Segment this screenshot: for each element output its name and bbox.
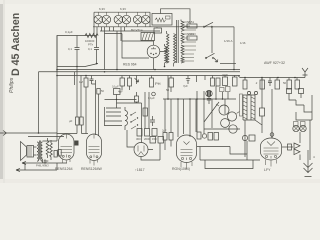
resistor fr box1 [282, 144, 293, 150]
wire switch out [213, 26, 234, 28]
wire between V1 V2 [57, 133, 88, 135]
wire drop e [116, 31, 118, 70]
svg-text:µF: µF [69, 119, 73, 123]
wire y99.4 [105, 99, 137, 100]
wire mains lead [0, 132, 57, 134]
lamp La1 [94, 12, 103, 27]
IF winding 2 [246, 95, 248, 120]
wire x149 [148, 92, 150, 129]
capacitor box B [112, 85, 120, 95]
antenna [302, 68, 308, 78]
IF core [240, 94, 256, 120]
grid cap circle [148, 92, 155, 100]
wire bus2 [39, 71, 241, 73]
svg-text:1/16: 1/16 [240, 41, 246, 45]
winding secondary [181, 45, 184, 55]
wire x95.5 [92, 80, 96, 135]
resistor spk box1 [54, 151, 57, 158]
transformer core [177, 20, 179, 63]
speaker driver [27, 146, 34, 158]
transformer taps [184, 22, 196, 61]
label 6,3V [99, 7, 126, 11]
resistor PTh [85, 34, 98, 38]
wire x77 lower [76, 67, 78, 118]
wire drop d [114, 27, 125, 31]
wire x196b [195, 99, 197, 132]
wire x212b [211, 99, 213, 128]
capacitor C1 [75, 36, 80, 53]
wire IF out [255, 120, 262, 133]
wire x272 [271, 89, 273, 138]
svg-text:0,1µF: 0,1µF [112, 85, 119, 89]
label V4 [172, 167, 190, 171]
wire fr4 [311, 95, 313, 120]
label PH [155, 81, 161, 86]
winding primary top [181, 20, 184, 32]
lamp La5 [133, 12, 142, 27]
svg-text:RES 964: RES 964 [123, 63, 137, 67]
label 4 [313, 155, 315, 159]
capacitor elec 122 [118, 76, 125, 94]
tube top cap dark [206, 90, 212, 96]
bottom boxes row [137, 129, 157, 137]
pickup box [152, 14, 172, 26]
resistor spk box2 [58, 150, 61, 157]
resistor box right of lamps [154, 28, 162, 33]
wire caps to bottom [77, 125, 82, 134]
resistor 171 [166, 76, 174, 93]
wire lamp feed left [94, 12, 97, 35]
wire lamp top bus [94, 11, 150, 13]
wire out h2 [230, 147, 247, 161]
svg-text:0,1µF: 0,1µF [65, 30, 73, 34]
label V5 [264, 168, 271, 172]
box C [135, 92, 139, 103]
capacitor 270 [268, 78, 272, 87]
svg-text:LFY: LFY [264, 168, 271, 172]
svg-text:PH: PH [155, 81, 161, 86]
wire V5 top feeds [247, 133, 274, 154]
wire x145 [144, 92, 146, 129]
capacitor block pair [69, 117, 83, 125]
resistor V151 [187, 20, 197, 28]
grid circles row [247, 91, 257, 94]
label PTh value [85, 39, 95, 47]
stub 196 [196, 76, 198, 83]
wire fr3 [304, 105, 312, 112]
IF winding 4 [254, 95, 256, 120]
svg-text:7µF: 7µF [183, 84, 188, 88]
wire eye cathode [153, 58, 155, 70]
dial scale hatch [141, 33, 155, 41]
wire out h4 [205, 160, 253, 169]
svg-text:PHIL WWJ: PHIL WWJ [36, 164, 49, 168]
resistor 245 [243, 78, 247, 90]
stub 205 [204, 76, 206, 81]
wire fr5 [296, 112, 312, 120]
resistor 151 [150, 76, 154, 88]
wire spk top rail [28, 136, 64, 138]
wire C1 to bus [76, 52, 78, 67]
resistor 213c [216, 78, 220, 86]
capacitor E [150, 116, 155, 126]
wire x116.5 [116, 95, 118, 109]
svg-text:B2 V71a: B2 V71a [131, 28, 143, 32]
label RES 964 [123, 63, 137, 67]
ground arrow [304, 150, 313, 177]
wire bottom rail [16, 163, 57, 172]
resistor box D [143, 108, 148, 116]
wire x98.5 [98, 94, 100, 136]
tube AM2 magic eye [147, 45, 160, 58]
coil pack core bars [105, 107, 123, 126]
band switch diagonals [130, 112, 138, 129]
label values row [136, 137, 157, 141]
wire x225 [224, 99, 226, 114]
wire x206 [197, 86, 230, 134]
paper edge shading [0, 0, 3, 183]
wire y63 [220, 63, 236, 65]
wire x234 drop [233, 27, 235, 70]
output transformer winding R [41, 142, 43, 161]
svg-text:RGN(1064): RGN(1064) [172, 167, 190, 171]
coil loops right [293, 122, 306, 132]
resistor 262 [255, 78, 265, 90]
junction dots bus4 [244, 77, 296, 79]
small comp row above V4 [162, 129, 173, 151]
capacitor C2 [94, 36, 99, 64]
label spk [36, 159, 49, 168]
svg-text:RENS1264: RENS1264 [55, 167, 73, 171]
wire eye right [160, 47, 167, 52]
winding heater [181, 57, 184, 64]
lamp La6 [141, 12, 150, 27]
resistor 234b [233, 76, 238, 87]
TUBE V4 RGN1064 [177, 135, 197, 169]
wire y99 bus [163, 98, 236, 100]
label V1 [55, 167, 73, 171]
arrow mains [214, 58, 218, 62]
resistor spk vert2 [50, 140, 53, 160]
svg-text:D 45 Aachen: D 45 Aachen [10, 13, 22, 76]
label B2V71a [131, 28, 143, 32]
switch S2 [205, 53, 214, 59]
lamp La3 [114, 12, 123, 27]
wire x178 [177, 99, 179, 137]
svg-text:Philips: Philips [9, 77, 15, 93]
wire fr2 [296, 100, 304, 105]
wire box frame [57, 36, 97, 72]
wire drop f [120, 31, 122, 41]
capacitor elec 188 [183, 76, 190, 89]
wire x81 lower [80, 76, 82, 118]
svg-text:1/16 A: 1/16 A [224, 39, 233, 43]
output transformer core [40, 141, 41, 160]
wire x141.5 [141, 103, 143, 143]
resistor 1M [79, 76, 88, 134]
svg-text:RENS1264W: RENS1264W [81, 167, 103, 171]
resistor V131 [187, 32, 197, 40]
svg-text:800: 800 [44, 159, 49, 163]
resistor WW [223, 73, 229, 86]
wire V3 conn [141, 143, 160, 160]
TUBE V2 RENS1264W [87, 134, 102, 166]
wire x38.5 [38, 72, 40, 133]
svg-text:6,3V: 6,3V [120, 7, 126, 11]
svg-text:300: 300 [136, 137, 141, 141]
wire switch drop [211, 27, 213, 53]
resistor spk vert [46, 138, 49, 158]
coil dial right [167, 31, 169, 63]
wire pickup out [161, 9, 191, 24]
wire out h1 [197, 146, 230, 148]
wire x190 [189, 99, 191, 137]
label AWF [264, 61, 285, 65]
wire eye frame [122, 34, 154, 59]
svg-text:0,1µF: 0,1µF [148, 96, 155, 100]
diode plates [294, 143, 300, 155]
wire x57 [56, 36, 58, 137]
resistor 129 [128, 76, 132, 91]
coupling box dark [75, 141, 79, 146]
wire out h3 [200, 147, 260, 161]
svg-text:6,3V: 6,3V [99, 7, 105, 11]
wire lamp right drop [150, 12, 157, 27]
label 0,1uF top [65, 30, 73, 34]
TUBE V1 RENS1264 [59, 134, 75, 163]
svg-text:↑1817: ↑1817 [135, 168, 145, 172]
wire x245 drop [244, 120, 246, 157]
resistor 212b [211, 76, 215, 87]
boxes right of V3 [150, 137, 164, 144]
junction dots bus [56, 63, 235, 77]
TUBE V5 LFY [261, 138, 282, 167]
arrow pot 136 [135, 76, 139, 85]
wire y103 [117, 102, 142, 104]
wire x74.5 [74, 72, 76, 85]
lamp La2 [102, 12, 111, 27]
capacitor row a [90, 76, 94, 85]
wire x127 drop [127, 130, 134, 147]
IF winding 1 [243, 95, 247, 120]
svg-text:PTh: PTh [88, 43, 94, 47]
winding primary mid [181, 33, 184, 43]
junction dots y99 [167, 98, 223, 100]
wire spk conn [34, 141, 58, 163]
svg-text:0,1: 0,1 [68, 47, 72, 51]
label C1 value [68, 47, 72, 51]
winding left column [165, 44, 168, 67]
IF can arcs [216, 104, 240, 133]
wire row y33.5 [105, 33, 123, 35]
resistor box x98.5 [97, 89, 105, 95]
svg-text:50: 50 [283, 81, 287, 85]
wire fr6 [309, 120, 311, 160]
title Philips [9, 77, 15, 93]
label fuse [240, 41, 246, 45]
resistor 289 [283, 78, 292, 90]
capacitor spk small [43, 159, 46, 164]
label V2 [81, 167, 103, 171]
speaker cone [21, 142, 27, 161]
capacitor below top cap [207, 97, 211, 104]
resistor vert right [174, 34, 176, 67]
comp boxes above V4 right [197, 132, 219, 140]
wire row y31 [100, 30, 160, 32]
svg-text:4µF: 4µF [118, 90, 123, 94]
label 1/16A [224, 39, 233, 43]
TUBE V3 1817 [134, 143, 148, 157]
resistor 297 [295, 78, 300, 90]
label V3 [135, 168, 145, 172]
svg-text:2µF: 2µF [162, 129, 167, 133]
resistor 276 [275, 78, 280, 90]
wire drop b [104, 27, 106, 70]
svg-text:150: 150 [152, 137, 157, 141]
wire bus1 [57, 69, 240, 71]
wire bus3 [57, 75, 240, 77]
wire diagonal [204, 102, 219, 122]
label C2 value [88, 47, 92, 51]
wire grid bus left [57, 64, 98, 67]
svg-text:V151: V151 [188, 20, 195, 24]
wire drop a [101, 27, 103, 31]
wire drop c [109, 27, 111, 31]
svg-text:WW: WW [223, 73, 229, 77]
wire fr1 [287, 89, 304, 101]
coil pack loops [125, 107, 128, 130]
wire lamp bottom bus [93, 26, 234, 28]
svg-text:V131: V131 [188, 32, 195, 36]
switch S1 [203, 22, 213, 27]
wire bus4 [238, 76, 305, 78]
svg-text:0,1: 0,1 [88, 47, 92, 51]
comp above V5 [242, 135, 255, 141]
wire rect v [299, 132, 301, 160]
svg-text:AWF 927+32: AWF 927+32 [264, 61, 285, 65]
IF winding 3 [251, 95, 255, 120]
wire spk bottom [22, 136, 67, 170]
mains plug [3, 131, 7, 136]
wire x168 [165, 76, 184, 135]
wire y129 rail [204, 128, 240, 130]
lamp La4 [122, 12, 131, 27]
output transformer winding L [37, 142, 39, 161]
title D 45 Aachen [10, 13, 22, 76]
wire x262 [260, 78, 265, 126]
